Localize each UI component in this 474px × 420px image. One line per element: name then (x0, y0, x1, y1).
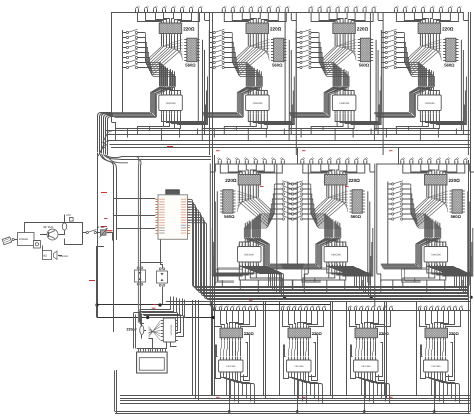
svg-text:POWER: POWER (19, 238, 28, 241)
svg-text:74HC595: 74HC595 (252, 102, 263, 105)
svg-text:74HC595: 74HC595 (331, 254, 342, 257)
svg-text:560Ω: 560Ω (451, 214, 462, 219)
svg-text:IRF 9540: IRF 9540 (43, 226, 54, 229)
svg-text:560Ω: 560Ω (272, 63, 283, 68)
svg-text:74HC595: 74HC595 (431, 365, 441, 368)
svg-text:4.7kΩ: 4.7kΩ (98, 226, 105, 229)
svg-text:74HC595: 74HC595 (361, 365, 371, 368)
svg-text:74HC595: 74HC595 (166, 102, 177, 105)
svg-text:74HC595: 74HC595 (226, 365, 236, 368)
svg-text:560Ω: 560Ω (359, 63, 370, 68)
svg-text:MAX7219: MAX7219 (169, 325, 172, 335)
svg-text:220Ω: 220Ω (357, 27, 369, 32)
svg-text:VCC: VCC (66, 214, 71, 217)
svg-text:220Ω: 220Ω (183, 27, 195, 32)
svg-text:560Ω: 560Ω (224, 214, 235, 219)
svg-text:220Ω: 220Ω (349, 178, 361, 183)
svg-text:220Ω: 220Ω (270, 27, 282, 32)
svg-text:560Ω: 560Ω (185, 63, 196, 68)
svg-text:220Ω: 220Ω (442, 27, 454, 32)
svg-text:BZ: BZ (44, 254, 48, 258)
svg-text:74HC595: 74HC595 (431, 254, 442, 257)
svg-text:560Ω: 560Ω (444, 63, 455, 68)
svg-text:74HC595: 74HC595 (294, 365, 304, 368)
svg-text:220Ω: 220Ω (225, 178, 237, 183)
svg-text:220Ω: 220Ω (449, 178, 461, 183)
svg-text:BUZZER: BUZZER (60, 255, 69, 258)
svg-text:220μF: 220μF (127, 328, 138, 332)
svg-text:74HC595: 74HC595 (243, 254, 254, 257)
svg-text:74HC595: 74HC595 (424, 102, 435, 105)
svg-text:74HC595: 74HC595 (339, 102, 350, 105)
svg-text:560Ω: 560Ω (351, 214, 362, 219)
